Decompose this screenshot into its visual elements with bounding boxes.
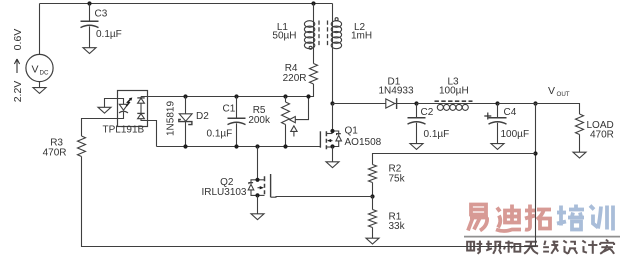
svg-text:AO1508: AO1508: [345, 137, 382, 148]
svg-text:220R: 220R: [283, 73, 307, 84]
wire R2 to node: [372, 183, 374, 197]
wire C2 bottom: [416, 123, 418, 144]
resistor R1: [369, 210, 377, 228]
wire VDC to top rail: [39, 4, 41, 55]
node divider mid: [370, 194, 374, 198]
wire opto bottom rail to Q1 gate: [157, 146, 321, 148]
wire divider top: [373, 154, 536, 165]
opto emission arrow: [126, 99, 130, 106]
wire R5 top lead: [285, 97, 287, 103]
L3 core: [435, 100, 473, 102]
ground below R1: [366, 238, 379, 244]
ground below LOAD: [573, 152, 586, 158]
node L2 / D1 / Q1 drain: [330, 101, 334, 105]
svg-text:470R: 470R: [43, 148, 67, 159]
capacitor C4 (polarized): [489, 117, 507, 119]
R5 adjust arrow: [291, 126, 297, 131]
wire opto LED cathode to R3: [82, 119, 118, 137]
svg-text:V: V: [548, 85, 555, 97]
node C1 bottom: [234, 144, 238, 148]
node D2 bottom: [183, 144, 187, 148]
wire L2 bottom to drain node: [332, 46, 334, 104]
svg-text:C4: C4: [504, 107, 517, 118]
svg-text:50µH: 50µH: [272, 31, 296, 42]
wire Q2 gate to divider: [271, 196, 373, 199]
wire opto output top rail: [141, 96, 309, 98]
wire Q2 source: [257, 195, 259, 213]
node R5 top: [283, 94, 287, 98]
wire Q2 drain: [257, 147, 259, 180]
svg-text:C1: C1: [223, 104, 236, 115]
watermark logo text: 易迪拓培训: [468, 205, 488, 231]
resistor R2: [369, 165, 377, 183]
opto photodiode stack: [140, 97, 142, 98]
node Q1 drain-diode: [330, 129, 334, 133]
svg-text:C2: C2: [421, 107, 434, 118]
wire drain node to D1: [333, 103, 386, 105]
voltage source VDC: [26, 54, 53, 81]
transistor Q1: [319, 131, 321, 147]
svg-text:470R: 470R: [590, 130, 614, 141]
inductor L2 winding: [331, 21, 341, 28]
node Q1 source-diode: [330, 144, 334, 148]
R5 wiper arrow: [289, 117, 295, 123]
svg-text:DC: DC: [40, 70, 49, 77]
wire C4 top: [497, 104, 499, 118]
svg-text:OUT: OUT: [557, 91, 570, 98]
capacitor C3: [81, 20, 99, 22]
ground below Q1: [326, 162, 339, 168]
node D2 top: [183, 94, 187, 98]
wire R4 bottom: [309, 84, 314, 97]
svg-text:0.1µF: 0.1µF: [424, 129, 450, 140]
inductor L3: [437, 104, 443, 110]
Q1 body diode: [333, 131, 339, 135]
svg-text:1mH: 1mH: [351, 31, 372, 42]
svg-text:33k: 33k: [389, 221, 406, 232]
wire opto LED anode to ground: [105, 99, 118, 108]
phase dot L1: [309, 46, 312, 49]
phase dot L2: [335, 18, 338, 21]
node Q2 source-diode: [255, 193, 259, 197]
svg-text:1N5819: 1N5819: [166, 101, 177, 136]
wire C4 node to Vout corner: [498, 104, 580, 115]
svg-text:0.1µF: 0.1µF: [96, 29, 122, 40]
svg-text:1N4933: 1N4933: [379, 86, 414, 97]
wire L1 to R4: [313, 46, 315, 64]
resistor R3: [78, 136, 86, 157]
ground at opto LED: [98, 107, 111, 113]
wire D1 to C2 node: [395, 103, 417, 105]
node feedback / divider: [533, 151, 537, 155]
inductor L1 winding: [304, 21, 314, 28]
resistor R5 (trimmer): [282, 102, 290, 125]
node R5 bottom: [283, 144, 287, 148]
wire Q1 source: [332, 147, 334, 162]
wire R1 bottom: [372, 228, 374, 239]
svg-text:V: V: [32, 64, 39, 76]
ground below C4: [491, 144, 504, 150]
wire C2 to L3: [417, 103, 439, 105]
transistor Q2: [270, 174, 272, 197]
watermark subtitle: 射频和天线设计专家: [467, 241, 482, 254]
svg-text:TPL191B: TPL191B: [103, 125, 145, 136]
svg-text:100µF: 100µF: [501, 129, 530, 140]
Q2 body diode: [251, 180, 258, 184]
resistor LOAD: [576, 114, 584, 135]
ground below C2: [410, 144, 423, 150]
wire LOAD bottom: [579, 135, 581, 153]
wire VDC to ground: [39, 82, 41, 88]
node C2 top: [414, 101, 418, 105]
node rail / R4 / wiper: [306, 94, 310, 98]
wire L2 top lead: [332, 4, 334, 22]
node top rail / L1: [311, 1, 315, 5]
svg-text:IRLU3103: IRLU3103: [201, 187, 246, 198]
svg-text:200k: 200k: [248, 115, 271, 126]
opto LED: [118, 99, 124, 105]
node top rail / C3: [87, 1, 91, 5]
capacitor C2: [408, 117, 426, 119]
watermark underline: [464, 236, 620, 238]
wire opto bottom pin: [148, 121, 157, 147]
wire C3 top: [89, 4, 91, 22]
svg-text:100µH: 100µH: [439, 86, 469, 97]
node Q2 drain rail: [255, 144, 259, 148]
wire Q1 drain: [332, 104, 334, 134]
diode D1 1N4933: [386, 99, 395, 108]
ground below Q2: [251, 214, 264, 220]
wire C1 bottom: [236, 123, 238, 146]
node Q2 drain-diode: [255, 178, 259, 182]
svg-text:Q1: Q1: [345, 126, 359, 137]
node C4 top: [495, 101, 499, 105]
C4 plus sign: [484, 113, 491, 120]
wire C3 bottom: [89, 26, 91, 47]
node C1 top: [234, 94, 238, 98]
wire C4 bottom: [497, 123, 499, 144]
node Vout feedback: [533, 101, 537, 105]
wire C2 top: [416, 104, 418, 118]
ground below VDC: [33, 88, 46, 94]
wire R5 bottom lead: [285, 125, 287, 147]
resistor R4: [310, 64, 318, 85]
transformer core: [318, 21, 320, 48]
svg-text:D2: D2: [196, 111, 209, 122]
wire C1 top: [236, 97, 238, 119]
wire R1 top: [372, 197, 374, 210]
wire R3 to feedback rail: [82, 157, 536, 247]
svg-text:C3: C3: [95, 9, 108, 20]
svg-text:0.1µF: 0.1µF: [207, 129, 233, 140]
wire Vout feedback drop: [535, 104, 537, 247]
wire top supply rail: [40, 3, 333, 5]
svg-text:75k: 75k: [389, 174, 406, 185]
capacitor C1: [228, 117, 246, 119]
ground below C3: [83, 48, 96, 54]
opto U1 TPL191B box: [118, 91, 148, 127]
diode D2 1N5819: [185, 97, 187, 147]
wire L3 to C4 node: [438, 103, 498, 105]
wire L1 top lead: [313, 4, 315, 22]
